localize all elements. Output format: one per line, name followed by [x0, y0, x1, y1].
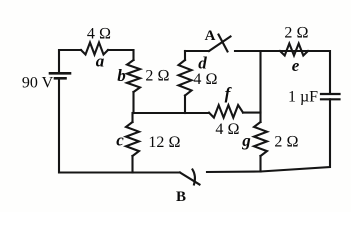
svg-text:B: B: [176, 189, 186, 205]
svg-text:2 Ω: 2 Ω: [274, 134, 298, 151]
svg-text:g: g: [241, 131, 251, 150]
svg-text:2 Ω: 2 Ω: [145, 68, 169, 85]
svg-text:4 Ω: 4 Ω: [193, 71, 217, 88]
svg-text:2 Ω: 2 Ω: [284, 25, 308, 42]
svg-text:f: f: [225, 84, 233, 103]
svg-text:90 V: 90 V: [22, 74, 54, 91]
svg-text:d: d: [198, 54, 207, 73]
svg-text:b: b: [117, 66, 126, 85]
svg-text:a: a: [96, 52, 105, 71]
svg-text:A: A: [205, 28, 216, 44]
svg-text:e: e: [292, 56, 300, 75]
svg-text:4 Ω: 4 Ω: [215, 121, 239, 138]
svg-text:c: c: [116, 131, 124, 150]
svg-text:12 Ω: 12 Ω: [148, 134, 180, 151]
svg-text:1 µF: 1 µF: [288, 89, 318, 106]
svg-text:4 Ω: 4 Ω: [87, 26, 111, 43]
